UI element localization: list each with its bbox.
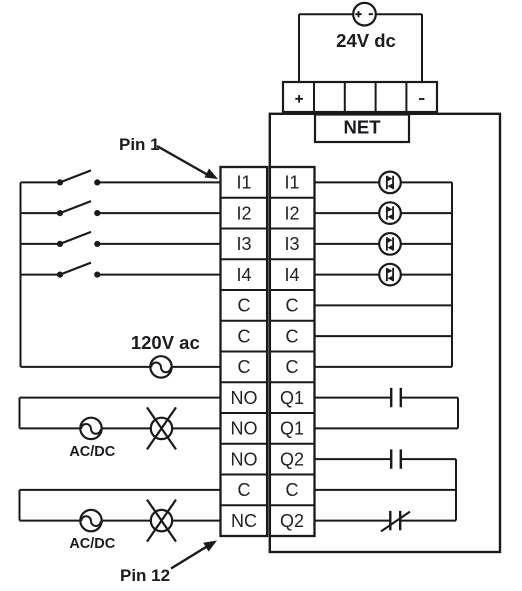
ac/dc source 2 [80, 510, 101, 531]
pin label - (terminal strip) [419, 98, 424, 100]
wire: right bus 1 (sensor return) [451, 182, 453, 367]
svg-text:C: C [238, 480, 251, 500]
wire: output loop 1 bottom (row) [20, 427, 221, 429]
lamp L1 (circle with X) [147, 407, 176, 449]
svg-text:C: C [238, 357, 251, 377]
svg-text:I4: I4 [284, 265, 299, 285]
lamp L2 (circle with X) [147, 500, 176, 542]
switch S2 (input I2) [21, 201, 221, 216]
wire: output loop 1 left bus [19, 398, 21, 429]
wire: output loop 2 left bus [19, 490, 21, 521]
svg-text:Q2: Q2 [280, 449, 304, 469]
sensor B3 (2-wire sensor symbol) [379, 233, 401, 255]
switch S3 (input I3) [21, 232, 221, 247]
svg-text:AC/DC: AC/DC [69, 536, 115, 552]
svg-text:120V ac: 120V ac [131, 332, 200, 353]
svg-text:I2: I2 [284, 203, 299, 223]
wire: C (row 6) to right bus 1 [315, 335, 453, 337]
ac/dc source 1 [80, 418, 101, 439]
ac source 120V [150, 356, 171, 377]
wire: 24V dc supply top [299, 13, 422, 15]
wire: Q1 NO row 8 [315, 397, 459, 399]
svg-text:C: C [238, 296, 251, 316]
svg-text:Pin 12: Pin 12 [120, 566, 170, 585]
svg-text:C: C [286, 326, 299, 346]
svg-text:C: C [286, 296, 299, 316]
svg-text:C: C [286, 357, 299, 377]
wire: output loop 2 bottom (row) [20, 520, 221, 522]
wire: right bus 3 (Q2 loop) [455, 459, 457, 520]
wire: I2 to sensor [315, 212, 453, 214]
wire: C row 11 [315, 489, 457, 491]
wire: C (row 5) to right bus 1 [315, 304, 453, 306]
wire: left vertical bus (switch common) [20, 182, 22, 367]
power/NET terminal strip [283, 82, 437, 112]
svg-text:I1: I1 [284, 173, 299, 193]
wire: right bus 2 (Q1 loop) [457, 398, 459, 429]
svg-text:Pin 1: Pin 1 [119, 135, 160, 154]
terminal block right column (I/O names) [270, 167, 315, 536]
terminal block left column (pins 1-12) [221, 167, 268, 536]
relay contact K3 (NC, Q2) [381, 511, 410, 532]
switch S1 (input I1) [21, 170, 221, 185]
wire: output loop 1 top (row) [20, 397, 221, 399]
arrow to pin 12 [171, 541, 217, 569]
switch S4 (input I4) [21, 263, 221, 278]
svg-text:NET: NET [344, 117, 382, 138]
NET port box [315, 115, 409, 143]
sensor B1 (2-wire sensor symbol) [379, 172, 401, 194]
svg-text:C: C [238, 326, 251, 346]
sensor B4 (2-wire sensor symbol) [379, 264, 401, 286]
wire: output loop 2 top (row) [20, 489, 221, 491]
svg-text:NO: NO [231, 419, 258, 439]
svg-text:I2: I2 [236, 203, 251, 223]
arrow to pin 1 [157, 146, 218, 179]
wire: I3 to sensor [315, 243, 453, 245]
svg-text:NO: NO [231, 449, 258, 469]
svg-text:NC: NC [231, 511, 257, 531]
wire: I1 to sensor [315, 181, 453, 183]
wire: Q2 NC row 12 [315, 520, 457, 522]
svg-text:I1: I1 [236, 173, 251, 193]
svg-text:AC/DC: AC/DC [69, 444, 115, 460]
wire: Q2 NO row 10 [315, 458, 457, 460]
svg-text:I3: I3 [284, 234, 299, 254]
wire: 24V dc supply right drop to - terminal [421, 14, 423, 82]
wire: 24V dc supply left drop to + terminal [298, 14, 300, 82]
svg-text:Q1: Q1 [280, 419, 304, 439]
wire: 120V ac feed (row 7, C) [21, 366, 221, 368]
svg-text:NO: NO [231, 388, 258, 408]
svg-text:Q1: Q1 [280, 388, 304, 408]
relay contact K1 (NO, Q1) [391, 388, 401, 407]
dc source symbol (circle with + -) [353, 3, 376, 26]
svg-text:Q2: Q2 [280, 511, 304, 531]
wire: Q1 row 9 [315, 427, 459, 429]
wire: C (row 7) to right bus 1 [315, 366, 453, 368]
controller body outline [270, 114, 500, 552]
svg-text:I4: I4 [236, 265, 251, 285]
sensor B2 (2-wire sensor symbol) [379, 202, 401, 224]
pin label + (terminal strip) [295, 95, 303, 103]
svg-text:I3: I3 [236, 234, 251, 254]
relay contact K2 (NO, Q2) [391, 449, 401, 468]
svg-text:C: C [286, 480, 299, 500]
svg-text:24V dc: 24V dc [336, 30, 396, 51]
wire: I4 to sensor [315, 274, 453, 276]
